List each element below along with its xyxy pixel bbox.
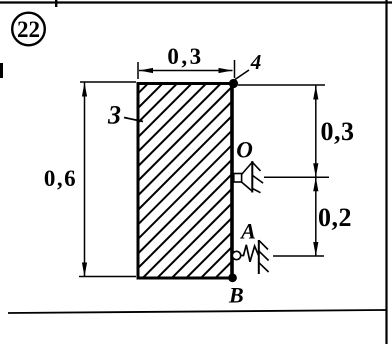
dimension 0,3 (top) extension line left — [137, 62, 139, 79]
pin support O: pin square — [234, 174, 242, 183]
svg-text:4: 4 — [250, 50, 262, 74]
svg-text:0,3: 0,3 — [167, 44, 203, 69]
spring support A: base line — [258, 240, 260, 274]
page frame right border — [385, 0, 387, 344]
svg-text:B: B — [228, 283, 244, 308]
pin support O: base line — [251, 161, 253, 193]
label 3 with leader — [107, 101, 143, 130]
page frame bottom border — [8, 310, 386, 313]
dimension 0,2 (right) dimension line with arrows — [313, 177, 318, 256]
dimension 0,6 (left) dimension line with arrows — [82, 83, 87, 277]
top border tick — [55, 0, 57, 7]
dimension 0,3 (right) value label — [321, 117, 355, 146]
middle extension line at O level — [264, 176, 329, 178]
svg-text:3: 3 — [107, 101, 121, 130]
label O — [236, 138, 253, 163]
top-right extension line from node 4 — [238, 84, 325, 86]
dimension 0,6 (left) top extension line — [80, 81, 136, 83]
dimension 0,3 (top) extension line right — [234, 60, 236, 78]
dimension 0,3 (top) value label — [167, 44, 203, 69]
svg-text:0,2: 0,2 — [318, 203, 352, 232]
page frame top border — [0, 1, 392, 3]
problem number circle 22 — [12, 13, 45, 46]
dimension 0,2 (right) value label — [318, 203, 352, 232]
pin support O: triangle sides — [242, 163, 253, 192]
pin support O: wall hatching — [252, 162, 263, 193]
plate 3 (hatched rectangle) — [0, 80, 392, 280]
dimension 0,6 value label — [44, 166, 77, 191]
label A — [239, 219, 256, 244]
dimension 0,6 (left) bottom extension line — [79, 276, 136, 278]
svg-text:A: A — [239, 219, 256, 244]
left edge mark — [0, 63, 3, 78]
svg-text:O: O — [236, 138, 253, 163]
spring support A: pin circle — [232, 251, 240, 259]
spring support A: spring zigzag — [241, 245, 259, 262]
svg-text:0,6: 0,6 — [44, 166, 77, 191]
bottom extension line at A level — [273, 255, 324, 257]
svg-text:22: 22 — [17, 17, 40, 42]
dimension 0,3 (top) dimension line with arrows — [139, 68, 233, 73]
node B (filled dot at bottom-right corner) — [228, 273, 237, 282]
svg-text:0,3: 0,3 — [321, 117, 355, 146]
node 4 (filled dot at top-right corner) — [229, 79, 238, 88]
label B — [228, 283, 244, 308]
label 4 with leader — [235, 50, 261, 80]
dimension 0,3 (right) dimension line with arrows — [313, 86, 318, 178]
spring support A: wall hatching — [259, 240, 269, 272]
